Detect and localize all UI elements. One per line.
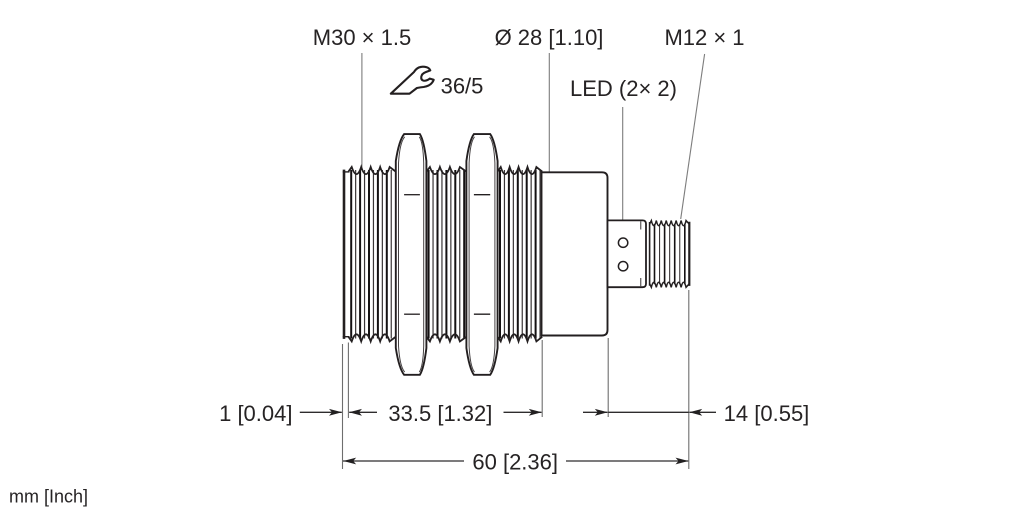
svg-text:Ø 28 [1.10]: Ø 28 [1.10] [495,25,604,50]
svg-text:36/5: 36/5 [441,73,484,98]
svg-text:1 [0.04]: 1 [0.04] [219,401,292,426]
svg-text:mm [Inch]: mm [Inch] [9,487,88,507]
svg-text:M30 × 1.5: M30 × 1.5 [313,25,411,50]
svg-text:M12 × 1: M12 × 1 [664,25,744,50]
svg-text:14 [0.55]: 14 [0.55] [724,401,810,426]
svg-text:LED (2× 2): LED (2× 2) [570,76,677,101]
svg-text:33.5 [1.32]: 33.5 [1.32] [388,401,492,426]
svg-text:60 [2.36]: 60 [2.36] [472,449,558,474]
